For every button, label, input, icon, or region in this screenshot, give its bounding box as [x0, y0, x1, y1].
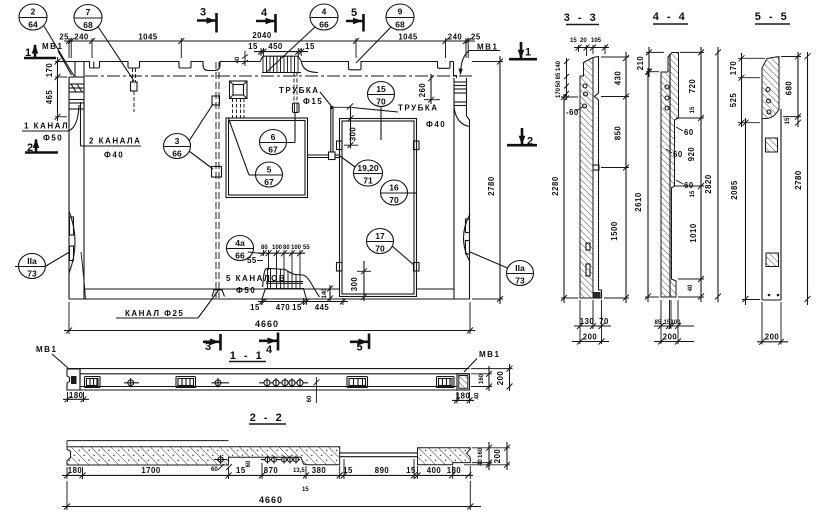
right edge big arc recess	[464, 214, 471, 262]
svg-text:-60: -60	[566, 108, 579, 117]
svg-text:70: 70	[376, 97, 386, 107]
channel circles 3-3	[583, 84, 587, 88]
svg-text:ТРУБКА: ТРУБКА	[398, 104, 439, 113]
section 3-3 cut dashed pair	[215, 62, 217, 298]
dims row 2-2	[62, 474, 473, 476]
five channels in 2-2 recess	[261, 456, 300, 464]
axis dash-dot line	[85, 75, 472, 77]
svg-text:720: 720	[688, 79, 697, 94]
svg-text:70: 70	[375, 244, 385, 254]
right end block 1-1 with MB1 plate	[457, 374, 470, 390]
panel bottom edge	[69, 298, 470, 300]
svg-text:200: 200	[493, 449, 502, 464]
svg-text:200: 200	[583, 333, 598, 342]
embedded plate with dashes (item 7)	[230, 81, 248, 99]
svg-text:15: 15	[343, 466, 353, 475]
svg-text:15: 15	[406, 466, 416, 475]
strip 1-1 outline	[67, 368, 470, 370]
left dim 210 4-4	[648, 47, 650, 77]
callout 9/68	[356, 4, 414, 63]
five channel circles 1-1	[259, 378, 308, 387]
svg-text:Ф15: Ф15	[303, 97, 323, 106]
svg-text:445: 445	[315, 303, 330, 312]
svg-text:2280: 2280	[551, 176, 560, 196]
svg-text:66: 66	[172, 149, 182, 159]
svg-text:180: 180	[456, 392, 471, 401]
svg-text:25: 25	[59, 33, 69, 42]
callout IIa/73 left	[15, 252, 70, 279]
svg-text:66: 66	[319, 20, 329, 30]
svg-text:Ф50: Ф50	[236, 286, 256, 295]
left bottom corner curve	[81, 252, 86, 299]
svg-text:105: 105	[591, 38, 602, 44]
svg-text:2: 2	[27, 142, 36, 154]
dim 180 right 1-1	[452, 399, 474, 401]
ribbed box 3	[347, 377, 368, 388]
svg-text:3: 3	[175, 136, 180, 146]
callout 4/66	[266, 4, 338, 73]
svg-text:40: 40	[235, 56, 241, 63]
opening 2 (right door recess) double frame	[340, 119, 417, 297]
svg-text:MB1: MB1	[42, 42, 63, 51]
svg-text:430: 430	[614, 71, 623, 86]
svg-text:IIa: IIa	[515, 263, 525, 273]
svg-text:15: 15	[570, 38, 577, 44]
svg-text:130: 130	[580, 317, 595, 326]
dim 160 right 1-1	[488, 366, 490, 391]
svg-text:920: 920	[687, 147, 696, 162]
section mark 2 left	[25, 139, 58, 155]
svg-text:200: 200	[663, 333, 678, 342]
dim 300 opening2 top	[350, 106, 352, 148]
svg-text:300: 300	[350, 277, 359, 292]
svg-text:60: 60	[673, 150, 683, 159]
svg-text:200: 200	[496, 371, 505, 386]
svg-text:5 - 5: 5 - 5	[755, 11, 790, 23]
svg-text:4: 4	[261, 7, 270, 19]
callout 17/70	[367, 229, 415, 266]
door sill block	[262, 289, 307, 300]
svg-text:850: 850	[614, 126, 623, 141]
left end block outline	[68, 77, 70, 299]
callout 4a/66	[227, 236, 263, 261]
section mark 3 top	[197, 7, 217, 33]
channel circles 4-4	[665, 85, 669, 89]
callout 7/68	[74, 5, 134, 82]
kanal f25 exit trapezoid	[212, 290, 225, 297]
svg-text:470: 470	[276, 303, 291, 312]
svg-text:50: 50	[556, 80, 562, 87]
anchor box lower on cut line	[212, 167, 222, 178]
svg-text:40: 40	[475, 392, 481, 399]
svg-text:9: 9	[398, 7, 403, 17]
channels bundle above sill	[263, 268, 320, 297]
svg-text:60: 60	[246, 460, 252, 467]
svg-text:160: 160	[479, 373, 485, 384]
svg-text:2 - 2: 2 - 2	[250, 412, 285, 424]
section mark 5 bottom	[350, 334, 369, 354]
svg-text:15: 15	[248, 42, 258, 51]
section 4-4 body hatched	[661, 53, 679, 298]
callout 19,20/71	[340, 156, 383, 186]
svg-text:80: 80	[283, 245, 290, 251]
svg-text:1045: 1045	[138, 33, 158, 42]
svg-text:Ф40: Ф40	[104, 151, 124, 160]
svg-text:КАНАЛ Ф25: КАНАЛ Ф25	[125, 309, 184, 318]
svg-text:380: 380	[312, 466, 327, 475]
tube dashes below notch2	[132, 68, 134, 82]
svg-text:180: 180	[447, 466, 462, 475]
channel circles 5-5	[766, 88, 770, 92]
svg-text:70: 70	[599, 317, 609, 326]
section mark 1 right	[509, 42, 537, 59]
svg-text:15: 15	[302, 487, 309, 493]
section 5-5 upper hatched block	[762, 57, 779, 119]
mini dim 40 key height	[242, 55, 248, 65]
svg-text:4660: 4660	[255, 319, 279, 329]
bottom dim 200 5-5	[757, 341, 788, 343]
svg-text:240: 240	[74, 33, 89, 42]
svg-text:680: 680	[785, 81, 794, 96]
svg-text:1 КАНАЛ: 1 КАНАЛ	[24, 122, 69, 131]
left edge embed rects	[70, 217, 74, 235]
extension from dot with tick	[333, 106, 352, 108]
right dim line 2 of 4-4 2820	[717, 47, 719, 302]
anchor box upper on cut line	[212, 96, 220, 105]
svg-text:15: 15	[376, 84, 386, 94]
svg-text:85: 85	[556, 72, 562, 79]
svg-text:67: 67	[268, 145, 278, 155]
trubka f15 symbol	[293, 103, 300, 113]
svg-text:180: 180	[69, 391, 84, 400]
channels small dims 80/100/80/100/55	[258, 252, 305, 254]
svg-text:2085: 2085	[730, 180, 739, 200]
svg-text:170: 170	[729, 61, 738, 76]
svg-text:80: 80	[261, 245, 268, 251]
svg-text:1: 1	[525, 47, 534, 59]
svg-text:7: 7	[86, 7, 91, 17]
svg-text:200: 200	[765, 333, 780, 342]
svg-text:4: 4	[322, 7, 327, 17]
callout 5/67	[229, 119, 283, 188]
conduit between openings	[308, 154, 329, 156]
svg-text:5: 5	[351, 7, 360, 19]
right dims 430/850/1500 3-3	[625, 52, 627, 303]
section 3-3 body hatched	[580, 58, 593, 299]
svg-text:64: 64	[28, 20, 38, 30]
embed plate upper in column	[766, 138, 778, 152]
left dim 2085 5-5	[745, 118, 747, 305]
top dimension line	[64, 40, 475, 42]
callout 16/70	[381, 180, 417, 205]
svg-text:2780: 2780	[487, 176, 496, 196]
callout 15/70	[368, 82, 395, 141]
ribbed box 1	[85, 377, 101, 388]
right dim 680 5-5	[797, 52, 799, 127]
svg-text:71: 71	[363, 176, 373, 186]
svg-text:15: 15	[292, 303, 302, 312]
svg-text:170: 170	[45, 63, 54, 78]
section mark 1 left	[24, 44, 56, 59]
svg-text:16: 16	[389, 183, 399, 193]
svg-text:5 КАНАЛОВ: 5 КАНАЛОВ	[226, 274, 286, 283]
top dims 15/20/105 of 3-3	[574, 47, 609, 49]
opening 1 (left recess) double frame	[226, 118, 308, 198]
svg-text:68: 68	[395, 20, 405, 30]
callout 2/64	[19, 4, 74, 76]
svg-text:73: 73	[27, 269, 37, 279]
svg-text:68: 68	[83, 20, 93, 30]
right edge embed rects	[466, 219, 470, 233]
left vertical dims 170/465	[57, 57, 59, 121]
junction box	[329, 152, 336, 160]
dim 140 sill	[329, 285, 331, 301]
svg-text:465: 465	[45, 90, 54, 105]
svg-text:4: 4	[266, 344, 275, 356]
svg-text:40: 40	[688, 284, 694, 291]
right dim 2780 5-5	[807, 52, 809, 305]
svg-text:100: 100	[272, 245, 283, 251]
serrated key block verticals	[263, 56, 298, 72]
dim 60 below 1-1	[313, 379, 319, 385]
svg-text:890: 890	[375, 466, 390, 475]
svg-text:300: 300	[349, 127, 358, 142]
svg-text:400: 400	[427, 466, 442, 475]
svg-text:3 - 3: 3 - 3	[564, 12, 599, 24]
svg-text:450: 450	[268, 42, 283, 51]
svg-text:2820: 2820	[704, 174, 713, 194]
svg-text:1045: 1045	[398, 33, 418, 42]
left end block ribs	[69, 84, 84, 109]
dim 200 right 1-1	[509, 364, 511, 391]
callout 6/67	[260, 113, 296, 155]
small box below notch2	[131, 82, 138, 91]
svg-text:15: 15	[236, 466, 246, 475]
svg-text:5: 5	[357, 342, 366, 354]
facing line 4-4	[669, 54, 671, 297]
riser from dot to junction box	[330, 106, 334, 110]
svg-text:Ф40: Ф40	[426, 120, 446, 129]
svg-text:25: 25	[471, 33, 481, 42]
channel circle f25 in 2-2	[214, 455, 227, 464]
dim 4660 2-2	[62, 506, 481, 508]
lower column 5-5	[761, 119, 763, 301]
svg-text:IIa: IIa	[27, 256, 37, 266]
overall dim 4660	[64, 330, 475, 332]
svg-text:3: 3	[200, 7, 209, 19]
section mark 4 bottom	[259, 333, 278, 357]
left dim 2610 4-4	[647, 68, 649, 302]
panel top edge profile with notches and key	[84, 56, 454, 70]
callout 3/66	[164, 104, 214, 169]
svg-text:140: 140	[322, 288, 328, 299]
right dim line 1 of 4-4	[700, 47, 702, 302]
svg-text:55: 55	[303, 245, 310, 251]
section mark 5 top	[346, 7, 364, 32]
key dim line 15|450|15	[254, 51, 308, 53]
section mark 2 right	[507, 128, 537, 148]
svg-text:1: 1	[25, 47, 34, 59]
left small dims column 3-3	[566, 58, 568, 100]
svg-text:2040: 2040	[252, 31, 272, 40]
svg-text:210: 210	[636, 56, 645, 71]
right end outline	[453, 62, 455, 76]
svg-text:60: 60	[307, 395, 313, 402]
facing strip 3-3	[593, 57, 602, 299]
channel circle 2	[212, 378, 230, 388]
top-left corner tab	[75, 61, 84, 63]
svg-text:100: 100	[291, 245, 302, 251]
right end transition curve	[454, 107, 470, 127]
svg-text:6: 6	[271, 132, 276, 142]
svg-text:870: 870	[264, 466, 279, 475]
svg-text:73: 73	[515, 276, 525, 286]
right vertical dim 2780	[499, 56, 501, 304]
svg-text:15: 15	[785, 117, 791, 124]
svg-text:2780: 2780	[794, 170, 803, 190]
svg-text:100: 100	[671, 320, 682, 326]
svg-text:15: 15	[690, 106, 696, 113]
svg-text:1700: 1700	[141, 466, 161, 475]
svg-text:180: 180	[68, 466, 83, 475]
svg-text:15: 15	[250, 303, 260, 312]
svg-text:1500: 1500	[610, 221, 619, 241]
ribbed box 4	[437, 377, 455, 388]
svg-text:140: 140	[556, 60, 562, 71]
svg-text:20: 20	[580, 38, 587, 44]
svg-text:2: 2	[31, 7, 36, 17]
ribbed box 2	[176, 377, 196, 388]
svg-text:3: 3	[205, 341, 214, 353]
svg-text:MB1: MB1	[479, 350, 500, 359]
svg-text:17: 17	[375, 231, 385, 241]
svg-text:Ф50: Ф50	[43, 134, 63, 143]
section mark 4 top	[256, 7, 276, 33]
svg-text:2: 2	[527, 136, 536, 148]
dim 180 left 1-1	[63, 398, 89, 400]
svg-text:160: 160	[478, 447, 484, 458]
callout IIa/73 right	[470, 252, 534, 286]
svg-text:67: 67	[264, 177, 274, 187]
embed plate lower in column	[766, 253, 779, 267]
bottom dims 15/470/15/445	[258, 301, 348, 303]
left end block 1-1	[67, 369, 80, 390]
svg-text:15: 15	[690, 190, 696, 197]
svg-text:60: 60	[211, 467, 218, 473]
svg-text:4 - 4: 4 - 4	[653, 11, 688, 23]
svg-text:70: 70	[389, 195, 399, 205]
svg-text:13,5: 13,5	[293, 468, 305, 474]
svg-text:4660: 4660	[259, 495, 283, 505]
svg-text:240: 240	[448, 33, 463, 42]
svg-text:15: 15	[305, 42, 315, 51]
clamps on opening2 edges	[337, 141, 343, 150]
dim 200 2-2	[506, 442, 508, 470]
2-2 facing top line	[67, 440, 229, 442]
left dims 170/525 5-5	[741, 53, 743, 127]
channel circle 1	[124, 378, 139, 388]
joint marks on facing 3-3	[593, 165, 599, 170]
2-2 right hatched block	[418, 448, 471, 465]
bottom dims 130/70 and 200 of 3-3	[574, 325, 611, 327]
right end ribs	[454, 82, 467, 106]
left edge arc recess	[69, 211, 75, 273]
svg-text:19,20: 19,20	[357, 163, 379, 173]
door gap lines 2-2	[340, 452, 418, 454]
svg-text:1010: 1010	[689, 223, 698, 243]
svg-text:525: 525	[729, 93, 738, 108]
bottom inner band line	[84, 288, 340, 290]
dim 300 opening2 bottom	[363, 261, 365, 301]
svg-text:260: 260	[418, 83, 427, 98]
svg-text:2 КАНАЛА: 2 КАНАЛА	[89, 137, 141, 146]
2-2 left hatched band	[67, 447, 340, 465]
notch N1 inner tick	[93, 62, 95, 68]
svg-text:ТРУБКА: ТРУБКА	[279, 86, 320, 95]
svg-text:1 - 1: 1 - 1	[230, 350, 265, 362]
key bottom line and right fillet	[262, 72, 301, 74]
svg-text:60: 60	[684, 181, 694, 190]
svg-text:5: 5	[267, 165, 272, 175]
bottom dots 5-5	[768, 294, 771, 297]
svg-text:2610: 2610	[634, 192, 643, 212]
bottom dims 85/15/100 and 200 of 4-4	[654, 325, 694, 327]
section mark 3 bottom	[203, 334, 221, 353]
dim 2280 left 3-3	[563, 94, 565, 303]
svg-text:66: 66	[235, 251, 245, 261]
svg-text:4a: 4a	[235, 238, 245, 248]
svg-text:MB1: MB1	[36, 345, 57, 354]
svg-text:60: 60	[684, 128, 694, 137]
svg-text:85: 85	[655, 320, 662, 326]
svg-text:170: 170	[556, 87, 562, 98]
dim 260 tube	[430, 74, 432, 104]
